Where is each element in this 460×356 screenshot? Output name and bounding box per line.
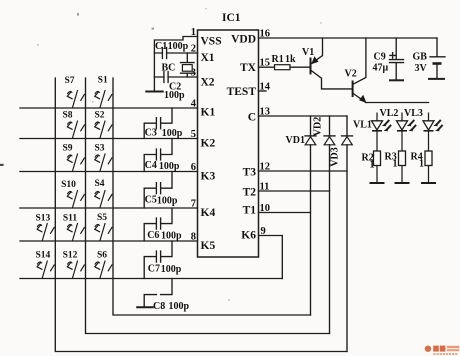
- svg-text:S6: S6: [97, 251, 107, 261]
- svg-text:100p: 100p: [169, 301, 190, 312]
- LED VL3: [404, 108, 443, 151]
- svg-text:47μ: 47μ: [373, 63, 389, 74]
- resistor R3: [385, 151, 410, 183]
- svg-text:1: 1: [393, 159, 398, 170]
- svg-text:IC1: IC1: [222, 12, 241, 24]
- svg-text:S12: S12: [63, 251, 78, 261]
- svg-text:VD2: VD2: [313, 117, 324, 136]
- switch S2: [94, 111, 111, 139]
- op-amp U1 IC1 box: [198, 12, 259, 257]
- svg-text:V2: V2: [345, 69, 357, 80]
- svg-text:V1: V1: [302, 47, 314, 58]
- svg-text:C1100p: C1100p: [155, 41, 189, 52]
- wire T3 stub pin12: [259, 170, 348, 172]
- capacitor C7: [144, 241, 182, 279]
- svg-text:S9: S9: [62, 144, 72, 154]
- svg-text:VDD: VDD: [231, 34, 256, 46]
- wire VDD rail: [259, 37, 438, 39]
- wire column T3 keypad: [55, 78, 347, 352]
- svg-text:S3: S3: [94, 144, 104, 154]
- wire row K2: [20, 138, 198, 140]
- svg-text:T3: T3: [243, 167, 257, 179]
- capacitor C5: [144, 172, 178, 209]
- svg-text:100p: 100p: [157, 196, 178, 207]
- wire LED anode rail: [366, 102, 429, 104]
- svg-text:S14: S14: [36, 251, 51, 261]
- svg-text:S5: S5: [97, 213, 107, 223]
- switch S7: [64, 76, 84, 108]
- LED VL1: [353, 113, 392, 152]
- watermark logo: [425, 346, 460, 355]
- svg-text:C: C: [248, 112, 256, 124]
- svg-text:S7: S7: [64, 76, 74, 86]
- svg-text:C9: C9: [374, 52, 386, 63]
- svg-text:C8: C8: [153, 301, 165, 312]
- svg-text:TX: TX: [240, 62, 257, 74]
- svg-text:K2: K2: [201, 138, 216, 150]
- wire T2 stub pin11: [259, 190, 330, 192]
- wire C line pin13: [259, 115, 348, 117]
- crystal BC: [162, 53, 195, 77]
- capacitor C1: [155, 41, 189, 59]
- wire X1 pin2: [154, 52, 197, 54]
- svg-text:C6: C6: [147, 230, 159, 241]
- LED VL2: [380, 108, 417, 151]
- wire K6 loop pin9: [259, 236, 283, 279]
- capacitor C4: [144, 139, 180, 173]
- svg-text:S8: S8: [62, 111, 72, 121]
- switch S11: [63, 214, 85, 241]
- wire TX to R1 to V1 base: [259, 66, 311, 68]
- svg-text:S2: S2: [94, 111, 104, 121]
- capacitor C6: [144, 208, 182, 242]
- svg-text:C7: C7: [148, 264, 160, 275]
- wire row K5: [20, 240, 198, 242]
- wire TEST stub: [259, 90, 267, 92]
- svg-text:X1: X1: [201, 52, 215, 64]
- diode VD3: [330, 116, 353, 352]
- diode VD1: [286, 116, 317, 315]
- svg-text:100p: 100p: [162, 128, 183, 139]
- capacitor C8: [144, 279, 189, 313]
- wire pin1 VSS to ground rail: [154, 37, 197, 92]
- svg-text:100p: 100p: [161, 231, 182, 242]
- svg-text:3V: 3V: [415, 63, 428, 74]
- switch S10: [61, 180, 84, 208]
- svg-text:S10: S10: [61, 180, 76, 190]
- wire row K1: [20, 107, 198, 109]
- capacitor C3: [144, 108, 183, 139]
- svg-text:VD1: VD1: [286, 135, 305, 146]
- svg-text:GB: GB: [413, 52, 428, 63]
- svg-text:1: 1: [370, 160, 375, 171]
- svg-text:C5: C5: [145, 195, 157, 206]
- svg-text:100p: 100p: [164, 90, 185, 101]
- scan speckles: [0, 8, 322, 301]
- wire column T2 keypad: [86, 78, 330, 334]
- switch S13: [36, 214, 55, 241]
- svg-text:VL3: VL3: [404, 108, 423, 119]
- switch S1: [95, 76, 112, 108]
- switch S6: [95, 251, 112, 279]
- svg-text:K4: K4: [201, 207, 216, 219]
- svg-text:VL2: VL2: [380, 108, 399, 119]
- ground: [146, 91, 162, 93]
- switch S8: [62, 111, 84, 139]
- wire row K3: [20, 171, 198, 173]
- resistor R2: [362, 151, 385, 183]
- svg-text:1k: 1k: [285, 54, 296, 65]
- svg-text:C4: C4: [145, 160, 157, 171]
- switch S12: [63, 251, 85, 279]
- svg-text:C3: C3: [145, 128, 157, 139]
- wire X2 pin3: [154, 76, 197, 78]
- resistor R4: [411, 151, 437, 183]
- svg-text:VL1: VL1: [353, 120, 372, 131]
- svg-text:R1: R1: [272, 54, 284, 65]
- svg-text:T1: T1: [243, 205, 257, 217]
- svg-text:VSS: VSS: [201, 36, 222, 48]
- svg-text:K5: K5: [201, 240, 216, 252]
- battery GB: [413, 38, 446, 79]
- svg-text:100p: 100p: [161, 264, 182, 275]
- wire column T1 keypad: [113, 78, 311, 315]
- switch S4: [94, 179, 111, 208]
- switch S5: [95, 213, 112, 241]
- svg-text:100p: 100p: [159, 161, 180, 172]
- switch S9: [62, 144, 84, 172]
- svg-text:K6: K6: [241, 230, 256, 242]
- svg-text:1: 1: [419, 159, 424, 170]
- capacitor C9: [373, 38, 404, 80]
- svg-text:S13: S13: [36, 214, 51, 224]
- wire row K4: [20, 207, 198, 209]
- svg-text:S11: S11: [63, 214, 78, 224]
- svg-text:TEST: TEST: [227, 86, 257, 98]
- svg-text:X2: X2: [201, 77, 215, 89]
- svg-text:S1: S1: [98, 76, 108, 86]
- switch S14: [36, 251, 55, 279]
- ground C8: [137, 306, 153, 308]
- resistor R1: [272, 54, 297, 70]
- svg-text:S4: S4: [94, 179, 104, 189]
- transistor V1: [302, 38, 353, 89]
- svg-text:K3: K3: [201, 171, 216, 183]
- wire T1 stub pin10: [259, 212, 311, 214]
- switch S3: [94, 144, 111, 172]
- svg-text:K1: K1: [201, 107, 216, 119]
- svg-text:VD3: VD3: [330, 147, 341, 166]
- transistor V2: [345, 38, 367, 103]
- wire row K6 bottom row: [20, 278, 282, 280]
- svg-text:T2: T2: [243, 187, 257, 199]
- capacitor C2: [164, 72, 185, 102]
- diode VD2: [313, 116, 336, 334]
